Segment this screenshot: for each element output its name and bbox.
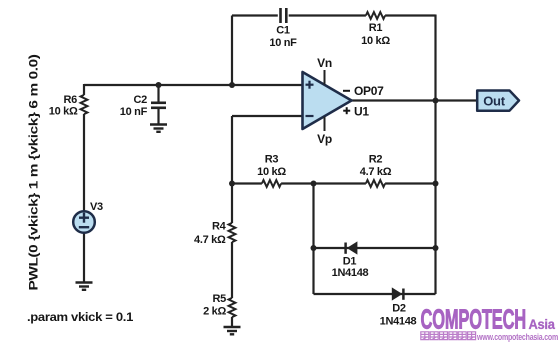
resistor R4 xyxy=(229,223,236,242)
wire inverting input horizontal xyxy=(232,115,303,117)
node dot D1 left xyxy=(311,245,317,251)
wire op-amp output xyxy=(351,99,477,101)
ground (V3) xyxy=(76,283,93,290)
wire V3 to ground xyxy=(83,233,85,283)
svg-text:U1: U1 xyxy=(354,105,369,119)
svg-text:R1: R1 xyxy=(369,22,383,34)
wire R3 to mid node xyxy=(281,182,366,184)
wire C1 to R1 xyxy=(289,14,366,16)
wire inverting branch vertical xyxy=(231,116,233,184)
svg-text:COMPOTECH: COMPOTECH xyxy=(421,303,527,335)
resistor R6 xyxy=(81,95,88,114)
svg-text:V3: V3 xyxy=(90,201,103,213)
svg-text:C2: C2 xyxy=(134,94,148,106)
node dot R2 right xyxy=(433,181,439,187)
svg-text:www.compotechasia.com: www.compotechasia.com xyxy=(476,332,558,343)
svg-text:10 kΩ: 10 kΩ xyxy=(257,166,286,178)
svg-text:1N4148: 1N4148 xyxy=(380,316,417,328)
svg-text:R5: R5 xyxy=(213,293,227,305)
capacitor C1 xyxy=(281,8,287,23)
node dot output xyxy=(433,98,439,104)
svg-text:R4: R4 xyxy=(212,221,227,233)
voltage source V3 xyxy=(73,211,95,233)
op-amp + input mark xyxy=(306,81,314,89)
resistor R3 xyxy=(262,180,281,187)
wire R4 to R5 xyxy=(231,242,233,298)
wire D1 row xyxy=(314,247,436,249)
label OP07 with minus xyxy=(343,90,350,92)
wire C2 to ground xyxy=(157,109,159,125)
ground (R5) xyxy=(224,327,241,334)
svg-text:Vn: Vn xyxy=(317,56,332,70)
wire R2 to right vertical xyxy=(385,182,435,184)
wire left vertical of feedback loop xyxy=(231,16,233,86)
svg-text:10 kΩ: 10 kΩ xyxy=(361,35,390,47)
Out flag xyxy=(477,91,519,111)
node dot R3/R2 mid xyxy=(311,181,317,187)
wire R6 column top xyxy=(83,84,85,95)
watermark CJK line xyxy=(421,332,476,340)
svg-text:D2: D2 xyxy=(392,303,406,315)
svg-text:D1: D1 xyxy=(343,256,357,268)
svg-text:R2: R2 xyxy=(369,154,383,166)
wire R6 to V3 xyxy=(83,114,85,212)
node dot loop/main xyxy=(229,82,235,88)
diode D1 xyxy=(344,243,347,254)
wire C2 stub xyxy=(157,85,159,102)
svg-text:4.7 kΩ: 4.7 kΩ xyxy=(194,234,226,246)
svg-text:Vp: Vp xyxy=(317,132,332,146)
svg-text:Asia: Asia xyxy=(529,317,556,333)
op-amp - input mark xyxy=(306,115,314,117)
svg-text:2 kΩ: 2 kΩ xyxy=(203,306,226,318)
op-amp U1 xyxy=(303,72,352,129)
wire R5 to ground xyxy=(231,317,233,327)
svg-text:10 kΩ: 10 kΩ xyxy=(49,106,78,118)
wire mid vertical x=313 xyxy=(312,184,314,295)
wire R3 row left xyxy=(232,182,262,184)
svg-text:R3: R3 xyxy=(265,154,279,166)
diode D2 xyxy=(402,289,405,300)
label U1 with plus xyxy=(343,107,350,114)
svg-text:PWL(0 {vkick} 1 m {vkick} 6 m: PWL(0 {vkick} 1 m {vkick} 6 m 0.0) xyxy=(27,54,41,290)
svg-text:C1: C1 xyxy=(276,25,290,37)
watermark COMPOTECH xyxy=(421,303,527,335)
resistor R1 xyxy=(366,12,385,19)
svg-text:OP07: OP07 xyxy=(354,84,384,98)
node dot R3 left xyxy=(229,181,235,187)
wire right vertical x=435 from top to D2 row xyxy=(434,15,436,295)
svg-text:4.7 kΩ: 4.7 kΩ xyxy=(360,166,392,178)
wire D2 row xyxy=(314,293,436,295)
node dot C2/main xyxy=(156,82,162,88)
node dot D1 right xyxy=(433,245,439,251)
wire main input horizontal xyxy=(84,84,303,86)
wire R1 to top-right corner xyxy=(385,14,435,16)
svg-text:1N4148: 1N4148 xyxy=(332,267,369,279)
resistor R5 xyxy=(229,298,236,317)
resistor R2 xyxy=(366,180,385,187)
svg-text:10 nF: 10 nF xyxy=(120,106,148,118)
svg-text:.param vkick = 0.1: .param vkick = 0.1 xyxy=(27,310,134,324)
wire R4 column upper xyxy=(231,184,233,224)
svg-text:Out: Out xyxy=(483,94,505,109)
watermark Asia xyxy=(529,317,556,333)
svg-text:R6: R6 xyxy=(64,94,78,106)
capacitor C2 xyxy=(151,103,166,108)
pin Vp xyxy=(324,117,326,132)
ground (C2) xyxy=(150,125,167,132)
pin Vn xyxy=(324,70,326,85)
wire top-left segment to C1 xyxy=(232,14,278,16)
svg-text:10 nF: 10 nF xyxy=(269,37,297,49)
